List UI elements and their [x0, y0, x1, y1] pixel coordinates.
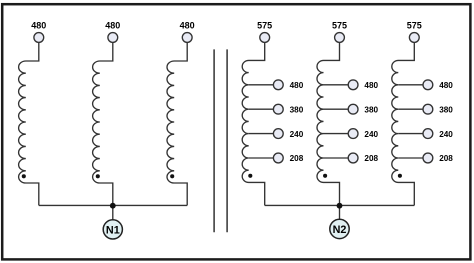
polarity dot (S1) — [248, 174, 252, 178]
inductor S3 secondary winding with lead wires — [392, 42, 415, 205]
polarity dot (L2) — [96, 174, 100, 178]
svg-text:208: 208 — [364, 154, 378, 163]
wire: tap 480 (S2) — [324, 84, 349, 86]
terminal tap 208 (S1) — [273, 153, 283, 163]
wire: tap 480 (S3) — [398, 84, 423, 86]
terminal 480 (primary winding L2) — [108, 33, 118, 43]
svg-text:240: 240 — [364, 130, 378, 139]
wire: primary neutral bus — [39, 204, 187, 206]
wire: tap 208 (S2) — [324, 157, 349, 159]
polarity dot (L3) — [170, 174, 174, 178]
wire: secondary neutral bus — [265, 204, 415, 206]
svg-text:240: 240 — [290, 130, 304, 139]
svg-text:380: 380 — [439, 105, 453, 114]
junction dot (primary neutral) — [110, 203, 116, 209]
terminal 575 (secondary winding S1) — [260, 33, 270, 43]
svg-text:480: 480 — [180, 21, 195, 31]
terminal tap 380 (S1) — [273, 104, 283, 114]
terminal tap 480 (S2) — [348, 80, 358, 90]
wire: tap 240 (S1) — [249, 133, 274, 135]
terminal tap 380 (S3) — [423, 104, 433, 114]
terminal 575 (secondary winding S2) — [335, 33, 345, 43]
svg-text:480: 480 — [105, 21, 120, 31]
terminal tap 240 (S3) — [423, 129, 433, 139]
junction dot (secondary neutral) — [337, 203, 343, 209]
terminal 480 (primary winding L3) — [182, 33, 192, 43]
polarity dot (S3) — [398, 174, 402, 178]
svg-text:575: 575 — [332, 21, 347, 31]
svg-text:208: 208 — [439, 154, 453, 163]
svg-text:575: 575 — [407, 21, 422, 31]
svg-text:480: 480 — [439, 81, 453, 90]
wire: tap 380 (S1) — [249, 108, 274, 110]
wire: stem to node N1 — [112, 205, 114, 220]
polarity dot (L1) — [22, 174, 26, 178]
inductor S1 secondary winding with lead wires — [242, 42, 265, 205]
terminal tap 240 (S1) — [273, 129, 283, 139]
wire: tap 380 (S2) — [324, 108, 349, 110]
terminal tap 208 (S3) — [423, 153, 433, 163]
node N1 — [103, 220, 122, 239]
terminal tap 480 (S1) — [273, 80, 283, 90]
polarity dot (S2) — [323, 174, 327, 178]
svg-text:480: 480 — [31, 21, 46, 31]
wire: tap 240 (S2) — [324, 133, 349, 135]
svg-text:N2: N2 — [333, 224, 347, 236]
terminal tap 208 (S2) — [348, 153, 358, 163]
svg-text:480: 480 — [364, 81, 378, 90]
wire: tap 480 (S1) — [249, 84, 274, 86]
wire: tap 208 (S1) — [249, 157, 274, 159]
node N2 — [330, 219, 349, 238]
svg-text:208: 208 — [290, 154, 304, 163]
svg-text:240: 240 — [439, 130, 453, 139]
svg-text:480: 480 — [290, 81, 304, 90]
svg-text:380: 380 — [290, 105, 304, 114]
wire: tap 380 (S3) — [398, 108, 423, 110]
wire: stem to node N2 — [339, 205, 341, 219]
svg-text:N1: N1 — [106, 224, 120, 236]
svg-text:575: 575 — [257, 21, 272, 31]
svg-text:380: 380 — [364, 105, 378, 114]
wire: tap 208 (S3) — [398, 157, 423, 159]
terminal tap 480 (S3) — [423, 80, 433, 90]
terminal 480 (primary winding L1) — [34, 33, 44, 43]
transformer core — [214, 49, 227, 232]
wire: tap 240 (S3) — [398, 133, 423, 135]
inductor L1 primary winding with lead wires — [19, 42, 39, 205]
inductor S2 secondary winding with lead wires — [317, 42, 340, 205]
inductor L3 primary winding with lead wires — [167, 42, 187, 205]
inductor L2 primary winding with lead wires — [93, 42, 113, 205]
terminal tap 380 (S2) — [348, 104, 358, 114]
terminal 575 (secondary winding S3) — [409, 33, 419, 43]
terminal tap 240 (S2) — [348, 129, 358, 139]
